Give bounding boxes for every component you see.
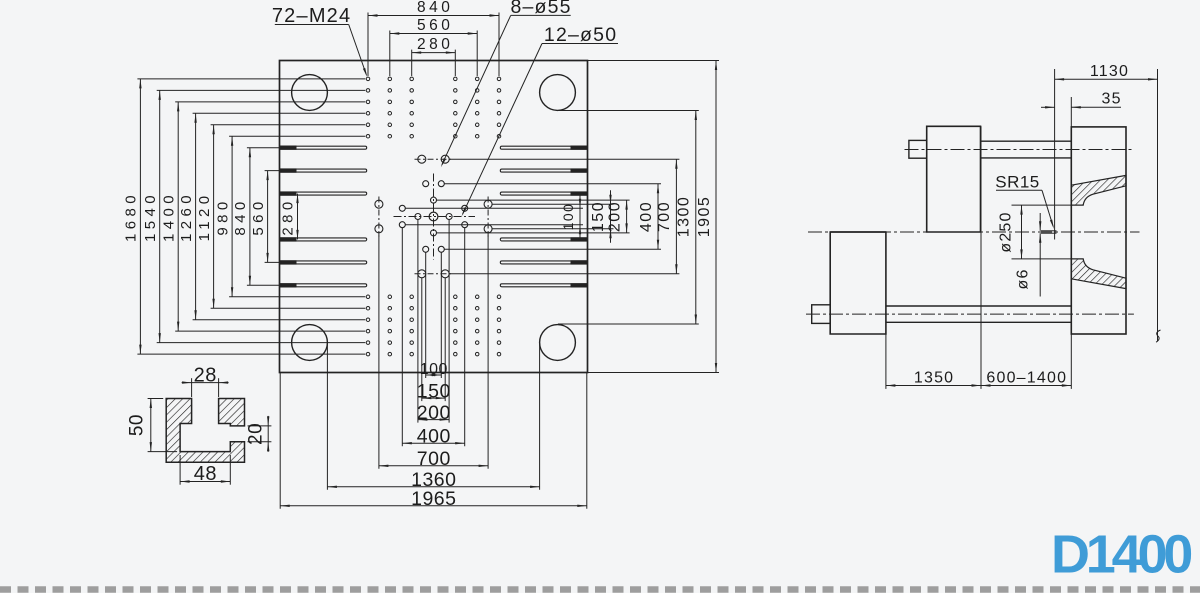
dimension 100 right [579,194,581,238]
svg-text:1300: 1300 [676,196,693,238]
mounting hole grid 72-M24 top block (36 holes) [366,77,501,138]
svg-text:D1400: D1400 [1051,525,1191,585]
dimension 28 detail [182,382,229,384]
dimension 980 left [231,136,233,297]
dimension 280 left [297,194,299,240]
dimension 1130 side view [1055,78,1158,80]
T-slots left arm (6) [280,146,367,288]
dimension 560 left [267,171,269,263]
svg-text:1130: 1130 [1090,63,1129,80]
dimension 840 top [368,15,499,17]
tie bar hole top-left [292,75,328,111]
dimension 1400 left [177,102,179,331]
dimension 280 top [412,52,456,54]
dimension 200 bottom [418,419,449,421]
svg-text:200: 200 [417,402,451,424]
dimension 150 bottom [422,397,445,399]
svg-text:840: 840 [417,0,453,16]
svg-text:280: 280 [280,197,297,235]
dimension o250 side view [1012,204,1073,206]
stationary platen block (side view) [1071,127,1126,334]
moving platen block upper position (min mold height) [927,126,981,232]
dimension 840 left [249,148,251,286]
svg-text:100: 100 [420,361,448,378]
moving platen block lower position (max mold height) [830,232,886,334]
T-slots right arm (6) [500,146,587,288]
dimension 100 bottom [426,374,442,376]
extension lines for bottom side-view dims [885,334,887,389]
svg-text:280: 280 [417,36,453,53]
side view upper tie bar centerline [905,149,1134,151]
detail extension lines [148,378,272,485]
central locating hole [429,212,438,221]
extension lines from left dims 840/560 to slots [247,148,282,286]
dimension 1260 left [195,113,197,319]
svg-text:1965: 1965 [411,488,456,510]
lower tie bar end stub [812,305,831,324]
svg-text:980: 980 [214,197,231,235]
dimension 1120 left [213,125,215,308]
svg-text:12–ø50: 12–ø50 [544,24,617,46]
svg-text:200: 200 [606,201,623,232]
svg-text:50: 50 [127,414,148,436]
short centerlines of hole pairs [379,159,488,274]
svg-text:1120: 1120 [196,192,213,242]
svg-text:72–M24: 72–M24 [272,5,351,27]
upper tie bar [981,140,1072,142]
lower tie bar [886,305,1071,307]
svg-text:1905: 1905 [696,196,713,238]
12-o50 holes at +/-200,+/-50 [399,205,467,227]
T-slot detail section (hatched profile) [166,399,244,463]
svg-text:840: 840 [232,197,249,235]
svg-text:700: 700 [417,448,451,470]
dimension 35 side view [1041,106,1055,108]
platen outline (front view) [280,61,588,373]
tie bar hole top-right [540,75,576,111]
extension lines from left dims to first hole column [137,79,365,354]
dimension 400 bottom [402,442,464,444]
12-o50 holes at +/-50,+/-200 [423,181,445,253]
svg-text:ø250: ø250 [998,211,1015,252]
extension lines to right dims [405,61,719,373]
mounting hole grid 72-M24 bottom block (36 holes) [366,295,501,356]
dimension 700 bottom [379,465,488,467]
dimension 400 right [657,184,659,250]
dimension 150 right [610,190,612,243]
dimension 200 right [626,200,628,233]
svg-text:48: 48 [194,463,217,485]
dimension 1300 right [695,111,697,325]
svg-text:600–1400: 600–1400 [986,370,1067,387]
upper tie bar end stub [909,140,927,158]
dimension 20 detail [267,416,269,452]
dimension 1360 bottom [327,486,539,488]
svg-text:100: 100 [560,203,576,231]
svg-text:SR15: SR15 [995,172,1040,191]
dimension 48 detail [180,481,230,483]
1130 right extension line with break symbol [1157,69,1159,341]
12-o50 holes inner ring (N S E W) [415,197,452,236]
svg-text:35: 35 [1101,90,1121,107]
centerline crosshair center [433,174,435,260]
svg-text:1350: 1350 [914,370,954,387]
svg-text:1260: 1260 [178,191,195,242]
svg-text:1400: 1400 [160,191,177,242]
svg-text:560: 560 [250,197,267,235]
side view main centerline [808,231,1140,233]
svg-text:1680: 1680 [123,191,140,242]
dimension 700 right [675,159,677,274]
dimension 1965 bottom [280,505,587,507]
svg-text:20: 20 [245,423,266,445]
tie bar hole bottom-right [540,325,576,361]
svg-text:150: 150 [417,380,451,402]
svg-text:400: 400 [638,201,655,232]
dimension o6 side view [1041,230,1057,232]
svg-text:28: 28 [194,364,217,386]
dimension 600-1400 side view [981,385,1071,387]
svg-text:1540: 1540 [142,191,159,242]
svg-text:150: 150 [590,201,607,232]
extension lines to bottom dims [280,220,587,509]
nozzle contact plane extension line [1054,69,1056,240]
dimension 1350 side view [886,385,981,387]
35 extension line [1070,97,1072,127]
8-o55 holes at +/-75,+/-350 [418,155,449,278]
svg-text:560: 560 [417,17,453,34]
svg-text:400: 400 [417,425,451,447]
dimension 1905 right [715,61,717,373]
extension lines from top dims to hole columns [368,13,499,77]
dimension 1540 left [159,90,161,342]
sprue taper lower section (hatched) [1071,259,1126,289]
sprue taper upper section (hatched) [1071,175,1126,205]
svg-text:ø6: ø6 [1015,268,1032,289]
dimension 1680 left [139,79,141,354]
dimension 560 top [390,33,477,35]
side view lower tie bar centerline [806,313,1134,315]
svg-text:700: 700 [656,201,673,232]
8-o55 holes at +/-350,+/-75 [375,200,492,233]
tie bar hole bottom-left [292,325,328,361]
dimension 50 detail [150,399,152,452]
dotted bottom border [0,586,1200,593]
